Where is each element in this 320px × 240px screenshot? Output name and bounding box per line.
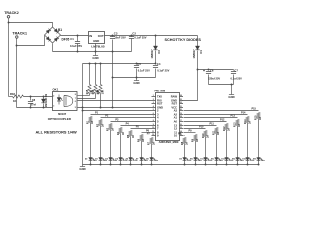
wire R4 to LED (120, 134, 122, 158)
junction (231, 84, 233, 86)
schottky diode D3 (153, 46, 157, 50)
svg-text:R7: R7 (148, 141, 151, 145)
wire C5 top (136, 64, 138, 65)
wire R15 to LED (258, 119, 260, 158)
junction (43, 96, 45, 98)
svg-text:C3: C3 (114, 31, 118, 35)
svg-text:R18: R18 (10, 92, 15, 96)
svg-text:P15: P15 (252, 108, 257, 111)
svg-text:D6: D6 (126, 158, 128, 160)
svg-text:R10: R10 (202, 133, 205, 138)
wire MCU pin 7 to R5 (131, 128, 152, 130)
svg-text:1K: 1K (217, 132, 220, 135)
junction (130, 164, 132, 166)
wire MCU pin 11 to R9 (184, 132, 196, 134)
svg-text:1K: 1K (122, 132, 125, 135)
svg-text:R11: R11 (212, 130, 215, 135)
svg-text:24: 24 (180, 94, 182, 97)
svg-text:ARDUINO_MINI: ARDUINO_MINI (159, 140, 179, 144)
wire bridge minus to ground rail (52, 44, 54, 52)
svg-text:12: 12 (174, 126, 177, 130)
wire R9 to LED (195, 141, 197, 158)
wire LED D13 to rail (226, 161, 228, 165)
wire C1 bottom (77, 44, 79, 52)
LED D7 (140, 158, 144, 161)
svg-text:D11: D11 (200, 158, 203, 160)
LED D16 (257, 158, 261, 161)
svg-text:9: 9 (153, 124, 154, 126)
wire LED D16 to rail (258, 161, 260, 165)
schottky diode D1 (195, 46, 199, 50)
wire GND stub (136, 78, 138, 81)
svg-text:1K: 1K (142, 139, 145, 142)
wire MCU pin 10 to R8 (184, 135, 185, 137)
LED D2 (89, 158, 93, 161)
svg-text:6: 6 (75, 101, 76, 103)
junction (155, 35, 157, 37)
wire pullup R17 top (100, 64, 102, 85)
svg-text:D14: D14 (232, 157, 236, 160)
capacitor C4 (153, 66, 158, 68)
resistor R11 (215, 128, 218, 134)
wire TRACK2 vertical (8, 19, 10, 97)
junction (131, 35, 133, 37)
wire R3 to LED (110, 130, 112, 158)
svg-text:0.1uF 25V: 0.1uF 25V (70, 44, 82, 48)
svg-text:D12: D12 (211, 158, 214, 160)
svg-text:R14: R14 (244, 119, 247, 124)
MCU right pin stubs (180, 97, 184, 136)
wire C2 bottom (131, 39, 133, 52)
svg-text:DF05: DF05 (62, 37, 70, 41)
wire pullup R16 top (95, 64, 97, 85)
junction (216, 164, 218, 166)
wire C5 bottom (136, 69, 138, 78)
wire C6 bottom (208, 75, 210, 85)
wire raw supply to C6 C7 (198, 69, 234, 71)
svg-text:GND: GND (79, 167, 85, 171)
wire TRACK1 to bridge AC2 (17, 36, 45, 46)
svg-text:OK1: OK1 (53, 88, 59, 92)
junction TRACK1 node (16, 45, 18, 47)
svg-text:1K: 1K (13, 99, 16, 103)
svg-text:6: 6 (153, 113, 154, 115)
LED D11 (204, 158, 208, 161)
wire MCU pin 8 to R6 (142, 132, 152, 134)
resistor R15 (88, 85, 91, 94)
resistor R2 (99, 120, 102, 126)
wire D1 cathode down to MCU GND pin (183, 51, 198, 101)
optocoupler internal gate (64, 96, 73, 107)
svg-text:8: 8 (153, 120, 154, 122)
svg-text:1K: 1K (207, 135, 210, 138)
wire D1 anode (197, 36, 199, 47)
svg-text:R3: R3 (107, 127, 110, 131)
svg-text:12: 12 (152, 134, 154, 136)
junction (112, 77, 114, 79)
LED D14 (236, 158, 240, 161)
svg-text:PRO_MINI: PRO_MINI (155, 91, 166, 93)
wire LED D2 to rail (90, 161, 92, 165)
wire LED D6 to rail (130, 161, 132, 165)
junction (247, 164, 249, 166)
svg-text:1K: 1K (259, 117, 262, 120)
svg-text:5: 5 (157, 119, 159, 123)
svg-text:7: 7 (75, 98, 76, 100)
junction (43, 107, 45, 109)
svg-text:TX0: TX0 (157, 94, 162, 98)
resistor R4 (119, 128, 122, 134)
svg-text:ALL RESISTORS 1/4W: ALL RESISTORS 1/4W (36, 130, 77, 135)
wire LED D12 to rail (216, 161, 218, 165)
diode D9 (41, 99, 45, 103)
wire C4 top (155, 64, 157, 65)
svg-text:D2: D2 (85, 158, 87, 160)
wire ground rail (53, 51, 132, 53)
svg-text:10uF 25V: 10uF 25V (114, 35, 126, 39)
svg-text:A0: A0 (174, 119, 178, 123)
svg-text:B1: B1 (58, 28, 62, 32)
svg-text:C7: C7 (234, 68, 238, 72)
resistor R13 (236, 120, 239, 126)
wire LED D7 to rail (141, 161, 143, 165)
svg-text:7: 7 (157, 126, 159, 130)
svg-text:18: 18 (180, 116, 182, 118)
svg-text:23: 23 (180, 99, 182, 101)
wire R6 to LED (141, 141, 143, 158)
junction (258, 164, 260, 166)
wire LED D9 to rail (184, 161, 186, 165)
wire LED common rail (83, 164, 260, 166)
junction (151, 164, 153, 166)
svg-text:10: 10 (152, 127, 154, 129)
svg-text:P12: P12 (220, 119, 225, 122)
wire bridge plus to regulator IN (61, 35, 89, 37)
wire LED D3 to rail (100, 161, 102, 165)
svg-text:R13: R13 (233, 122, 236, 127)
svg-text:20: 20 (180, 109, 182, 111)
svg-text:GND: GND (92, 56, 98, 60)
LED D5 (119, 158, 123, 161)
wire C4 bottom (155, 69, 157, 78)
wire to R18 (9, 96, 13, 98)
svg-text:RAW: RAW (171, 94, 178, 98)
svg-text:0.1uF 25V: 0.1uF 25V (134, 35, 146, 39)
junction (100, 107, 102, 109)
svg-text:21: 21 (180, 106, 182, 108)
capacitor C5 (134, 66, 139, 68)
wire pullup R15 bottom (89, 94, 91, 96)
capacitor C3 (110, 37, 115, 39)
svg-text:5: 5 (153, 109, 154, 111)
ground symbol under regulator (93, 55, 98, 57)
svg-text:1K: 1K (91, 121, 94, 124)
svg-text:3: 3 (153, 102, 154, 104)
ground symbol at LED rail (80, 166, 85, 168)
optocoupler OK1 box (53, 92, 78, 111)
svg-text:R9: R9 (191, 138, 194, 142)
svg-text:P11: P11 (210, 123, 215, 126)
MCU left pin stubs (152, 97, 156, 136)
svg-text:D10: D10 (190, 158, 193, 160)
svg-text:P7: P7 (147, 133, 151, 136)
resistor R8 (183, 138, 186, 144)
wire D9 bottom (43, 104, 45, 108)
wire R8 to LED (184, 144, 186, 158)
svg-text:6N137: 6N137 (58, 112, 67, 116)
svg-text:LM78L05: LM78L05 (91, 45, 105, 49)
junction (195, 164, 197, 166)
wire R11 to LED (216, 134, 218, 158)
svg-text:C5: C5 (137, 62, 141, 66)
wire LED D5 to rail (120, 161, 122, 165)
wire LED D8 to rail (151, 161, 153, 165)
svg-text:1K: 1K (228, 128, 231, 131)
svg-text:D7: D7 (136, 158, 138, 160)
wire opto VE pin (78, 98, 96, 100)
svg-text:1K: 1K (112, 128, 115, 131)
svg-text:R6: R6 (137, 138, 140, 142)
capacitor C8 (28, 102, 33, 104)
svg-text:5m: 5m (156, 160, 159, 162)
capacitor C7 (231, 72, 236, 74)
wire MCU pin 4 to R2 (101, 117, 152, 119)
svg-text:1K: 1K (186, 142, 189, 145)
svg-text:R15: R15 (254, 115, 257, 120)
bridge diode 4 (54, 38, 58, 42)
svg-text:D3: D3 (157, 50, 161, 54)
junction (226, 164, 228, 166)
svg-text:D9: D9 (179, 158, 181, 160)
wire TRACK2 to bridge AC1 (9, 23, 53, 28)
svg-text:D16: D16 (253, 158, 256, 160)
resistor R6 (140, 135, 143, 141)
junction (205, 164, 207, 166)
wire opto ground to MCU GND pin (78, 107, 152, 109)
LED D3 (99, 158, 103, 161)
wire LED D11 to rail (205, 161, 207, 165)
svg-text:R8: R8 (181, 141, 184, 145)
wire R1 to LED (90, 123, 92, 158)
svg-text:D5: D5 (116, 158, 118, 160)
bridge diode 3 (46, 37, 50, 41)
junction (82, 107, 84, 109)
ground symbol near C7 (229, 94, 234, 96)
wire D3 anode (155, 36, 157, 47)
LED D8 (150, 158, 154, 161)
svg-text:2: 2 (153, 99, 154, 101)
wire C6 C7 ground (209, 84, 234, 86)
svg-text:R15: R15 (86, 89, 89, 94)
svg-text:220uf 25V: 220uf 25V (208, 76, 220, 80)
junction (100, 164, 102, 166)
junction (141, 164, 143, 166)
svg-text:P14: P14 (241, 112, 246, 115)
bridge rectifier B1 outline (45, 27, 61, 43)
wire opto output to RXI (78, 100, 152, 102)
svg-text:R4: R4 (117, 131, 120, 135)
wire C7 top (233, 70, 235, 71)
microcontroller U1 PRO_MINI box (156, 93, 180, 141)
wire MCU pin 5 to R3 (111, 121, 152, 123)
svg-text:R1: R1 (86, 120, 89, 124)
svg-text:TRACK2: TRACK2 (4, 11, 19, 15)
svg-text:R5: R5 (127, 134, 130, 138)
ground symbol near C5 (134, 80, 139, 82)
svg-text:C2: C2 (132, 31, 136, 35)
svg-text:27nf: 27nf (31, 104, 36, 107)
svg-text:GND: GND (93, 39, 99, 43)
svg-text:8: 8 (75, 94, 76, 96)
svg-text:7: 7 (153, 116, 154, 118)
svg-text:1K: 1K (132, 135, 135, 138)
LED D4 (109, 158, 113, 161)
LED D10 (194, 158, 198, 161)
wire GND stub right (231, 85, 233, 95)
junction pin2 node (82, 110, 84, 112)
svg-text:D8: D8 (146, 158, 148, 160)
svg-text:4: 4 (153, 105, 154, 108)
wire R14 to LED (247, 123, 249, 158)
wire MCU pin 3 to R1 (91, 114, 152, 116)
resistor R10 (204, 131, 207, 137)
svg-text:5m: 5m (262, 160, 265, 162)
wire 5V distribution (83, 63, 156, 65)
junction (136, 77, 138, 79)
wire R12 to LED (226, 130, 228, 158)
svg-text:A3: A3 (174, 108, 178, 112)
junction (95, 51, 97, 53)
wire MCU pin A1 to R13 (184, 117, 238, 119)
LED D6 (129, 158, 133, 161)
svg-text:15: 15 (180, 127, 182, 129)
wire LED D15 to rail (247, 161, 249, 165)
svg-text:SCHOTTKY DIODES: SCHOTTKY DIODES (165, 38, 202, 42)
wire MCU pin 6 to R4 (121, 125, 152, 127)
resistor R15 (257, 113, 260, 119)
junction (95, 63, 97, 65)
junction (100, 63, 102, 65)
svg-text:0.1uF 25V: 0.1uF 25V (138, 68, 150, 72)
svg-text:OPTOCOUPLER: OPTOCOUPLER (48, 117, 72, 121)
junction (184, 164, 186, 166)
wire left column down to LED rail (82, 64, 84, 165)
wire LED D14 to rail (237, 161, 239, 165)
wire local ground (113, 77, 156, 79)
svg-text:4: 4 (157, 115, 159, 119)
junction (77, 51, 79, 53)
junction (112, 51, 114, 53)
junction (110, 164, 112, 166)
svg-text:D3: D3 (95, 158, 97, 160)
LED D12 (215, 158, 219, 161)
junction TRACK2 node (8, 22, 10, 24)
LED D9 (183, 158, 187, 161)
wire C2 top (131, 36, 133, 37)
svg-text:R17: R17 (97, 89, 100, 94)
capacitor C2 (129, 37, 134, 39)
wire opto VCC pin (78, 95, 90, 97)
svg-text:1K: 1K (101, 124, 104, 127)
connector pad TRACK2 (7, 16, 10, 19)
svg-text:1K: 1K (196, 139, 199, 142)
wire R13 to LED (237, 126, 239, 158)
resistor R12 (225, 124, 228, 130)
capacitor C6 (206, 72, 211, 74)
wire C8 bottom (30, 104, 32, 108)
svg-text:10K: 10K (102, 90, 105, 95)
svg-text:C6: C6 (210, 68, 214, 72)
capacitor C1 (75, 42, 80, 44)
svg-text:TRACK1: TRACK1 (12, 31, 27, 35)
svg-text:5: 5 (75, 107, 76, 109)
junction (136, 63, 138, 65)
resistor R14 (246, 117, 249, 123)
optocoupler internal LED (57, 98, 61, 102)
svg-text:2: 2 (53, 96, 54, 98)
svg-text:D1: D1 (199, 50, 203, 54)
svg-text:9: 9 (157, 133, 159, 137)
svg-text:D4: D4 (105, 157, 108, 160)
junction (30, 96, 32, 98)
wire MCU pin A0 to R12 (184, 121, 227, 123)
junction (208, 69, 210, 71)
bridge diode 1 (46, 30, 50, 34)
connector pad TRACK1 (16, 36, 18, 38)
svg-text:10: 10 (174, 133, 177, 137)
wire C1 top (77, 36, 79, 42)
wire LED D4 to rail (110, 161, 112, 165)
wire D9 top (43, 97, 45, 100)
svg-text:1K: 1K (249, 121, 252, 124)
svg-text:1N4148: 1N4148 (44, 98, 48, 108)
junction (77, 35, 79, 37)
LED D13 (225, 158, 229, 161)
svg-text:1: 1 (153, 95, 154, 97)
voltage regulator IC1 LM78L05 box (89, 32, 105, 44)
wire C8 top (30, 97, 32, 101)
svg-text:1N5817: 1N5817 (150, 49, 154, 59)
ground stub at LED rail (82, 165, 84, 167)
svg-text:11: 11 (152, 131, 154, 133)
junction (120, 164, 122, 166)
resistor R9 (194, 135, 197, 141)
wire pullup R15 top (89, 64, 91, 85)
svg-text:1K: 1K (238, 124, 241, 127)
svg-text:D15: D15 (242, 158, 245, 160)
junction (155, 63, 157, 65)
wire C6 top (208, 70, 210, 71)
svg-text:1N5817: 1N5817 (192, 49, 196, 59)
wire pullup R16 bottom (95, 94, 97, 99)
wire D3 cathode (155, 51, 157, 64)
svg-text:RST: RST (157, 101, 163, 105)
bridge diode 2 (54, 29, 58, 33)
svg-text:R2: R2 (97, 123, 100, 127)
wire C7 bottom (233, 75, 235, 85)
junction D1 node (197, 69, 199, 71)
svg-text:D13: D13 (221, 158, 224, 160)
svg-text:C1: C1 (70, 37, 74, 41)
svg-text:GND: GND (133, 81, 139, 85)
svg-text:A1: A1 (174, 115, 178, 119)
wire regulator GND pin (95, 44, 97, 56)
svg-text:C4: C4 (157, 62, 161, 66)
junction (112, 35, 114, 37)
resistor R16 (94, 85, 97, 94)
svg-text:D9: D9 (44, 93, 48, 97)
wire R5 to LED (130, 137, 132, 158)
